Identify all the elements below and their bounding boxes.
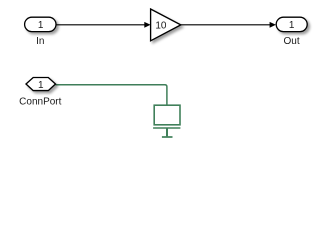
svg-text:1: 1: [38, 20, 44, 31]
physical wire ConnPort to reference: [56, 85, 167, 105]
svg-text:ConnPort: ConnPort: [19, 96, 61, 107]
svg-text:In: In: [36, 36, 44, 47]
svg-text:10: 10: [155, 21, 167, 32]
inport block In: [25, 17, 56, 31]
wire In to Gain: [56, 22, 151, 28]
connection port block ConnPort: [26, 78, 56, 91]
electrical reference (ground) block: [153, 105, 180, 137]
outport block Out: [276, 17, 307, 31]
wire Gain to Out: [181, 22, 276, 28]
svg-text:1: 1: [289, 20, 295, 31]
gain block: [151, 9, 181, 41]
svg-text:Out: Out: [284, 36, 300, 47]
svg-text:1: 1: [38, 80, 44, 91]
